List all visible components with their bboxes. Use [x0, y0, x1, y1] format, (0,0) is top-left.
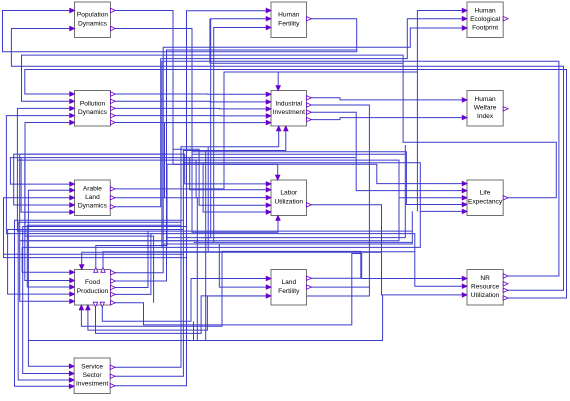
svg-text:Index: Index	[477, 113, 494, 120]
svg-text:Utilization: Utilization	[275, 198, 304, 205]
svg-text:Production: Production	[77, 288, 109, 295]
svg-text:Human: Human	[474, 96, 496, 103]
svg-text:Welfare: Welfare	[474, 105, 497, 112]
svg-text:Expectancy: Expectancy	[468, 198, 503, 205]
svg-text:Human: Human	[474, 7, 496, 14]
svg-text:Food: Food	[85, 279, 100, 286]
svg-text:Utilization: Utilization	[471, 292, 500, 299]
svg-text:Service: Service	[81, 363, 103, 370]
svg-text:Dynamics: Dynamics	[78, 109, 108, 116]
svg-text:Sector: Sector	[83, 372, 103, 379]
svg-text:Dynamics: Dynamics	[78, 20, 108, 27]
svg-text:Investment: Investment	[273, 109, 305, 116]
svg-text:Population: Population	[77, 12, 108, 19]
svg-text:Dynamics: Dynamics	[78, 203, 108, 210]
svg-text:Ecological: Ecological	[470, 16, 501, 23]
svg-text:Footprint: Footprint	[472, 25, 498, 32]
svg-text:Investment: Investment	[76, 381, 108, 388]
svg-text:Labor: Labor	[280, 190, 298, 197]
svg-text:Arable: Arable	[83, 185, 102, 192]
svg-text:Fertility: Fertility	[278, 20, 300, 27]
svg-text:Pollution: Pollution	[80, 100, 106, 107]
svg-text:Land: Land	[85, 194, 100, 201]
svg-text:Fertility: Fertility	[278, 288, 300, 295]
svg-text:Industrial: Industrial	[275, 100, 302, 107]
svg-text:Resource: Resource	[471, 284, 500, 291]
svg-text:NR: NR	[480, 275, 490, 282]
svg-text:Land: Land	[281, 279, 296, 286]
svg-text:Human: Human	[278, 12, 300, 19]
svg-text:Life: Life	[480, 190, 491, 197]
